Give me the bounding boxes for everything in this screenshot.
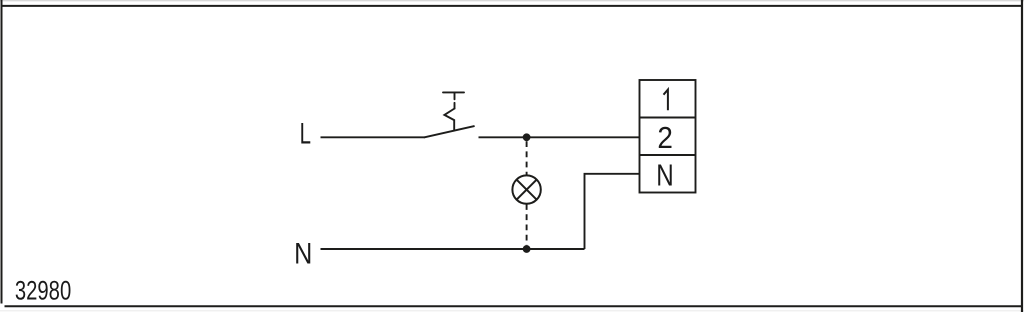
lamp E1 bbox=[512, 175, 540, 203]
wire N to terminal N bbox=[585, 174, 640, 249]
svg-text:N: N bbox=[656, 158, 673, 193]
dashed link lamp to N bbox=[526, 204, 528, 245]
wire L feed bbox=[321, 136, 425, 138]
net label N bbox=[294, 236, 312, 270]
wire switch to terminal 2 bbox=[479, 136, 640, 138]
node junction on L wire bbox=[523, 133, 531, 141]
svg-text:2: 2 bbox=[657, 121, 673, 156]
svg-text:N: N bbox=[294, 236, 312, 270]
terminal block X1 bbox=[640, 80, 696, 193]
pin label 2 bbox=[657, 121, 673, 156]
switch S1 push-button bbox=[425, 92, 474, 137]
drawing number 32980 bbox=[15, 276, 71, 307]
dashed link lamp to L bbox=[526, 141, 528, 175]
svg-text:32980: 32980 bbox=[15, 276, 71, 307]
wire N feed bbox=[321, 248, 585, 250]
node junction on N wire bbox=[523, 245, 531, 253]
pin label N bbox=[656, 158, 673, 193]
net label L bbox=[300, 118, 311, 151]
pin label 1 bbox=[664, 90, 668, 111]
svg-text:L: L bbox=[300, 118, 311, 151]
